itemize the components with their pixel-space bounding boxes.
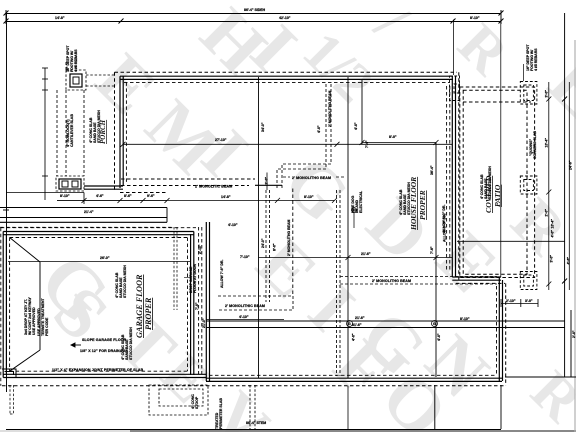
- left dim line: [3, 13, 9, 392]
- svg-text:2'-0": 2'-0": [545, 209, 549, 217]
- svg-text:GARAGE FLOOR: GARAGE FLOOR: [135, 274, 144, 338]
- garage outline: [1, 228, 206, 386]
- house bottom wall: [2, 375, 506, 386]
- house top wall: [115, 72, 458, 82]
- slope arrow: [71, 343, 81, 347]
- dims below patio: [501, 299, 538, 307]
- bottom right vertical x434: [434, 385, 436, 429]
- right overall rotated dims: [569, 160, 573, 170]
- svg-text:ALLOW 7'-6" DR.: ALLOW 7'-6" DR.: [220, 260, 224, 288]
- svg-text:14'-8": 14'-8": [221, 195, 231, 199]
- svg-text:21'-4": 21'-4": [84, 210, 94, 214]
- svg-text:4'-6": 4'-6": [567, 257, 571, 265]
- svg-text:STUCCO DIA MESH: STUCCO DIA MESH: [97, 110, 101, 143]
- svg-text:G: G: [433, 322, 436, 326]
- patio pilaster bottom-right: [520, 272, 537, 290]
- svg-text:STUCCO DIA MESH: STUCCO DIA MESH: [123, 265, 127, 298]
- electrical symbol: [352, 208, 357, 229]
- svg-text:USE APPROVED: USE APPROVED: [32, 307, 36, 335]
- svg-text:1/8" X 12" FOR DRAINAGE: 1/8" X 12" FOR DRAINAGE: [80, 349, 128, 353]
- svg-text:86'-4" SIDEH: 86'-4" SIDEH: [244, 8, 266, 12]
- bottom right stoop box: [500, 385, 502, 429]
- svg-text:FLOOR AT DOOR: FLOOR AT DOOR: [193, 264, 197, 293]
- house left wall turn west at y=186.5: [84, 186, 167, 193]
- svg-text:9'-6": 9'-6": [147, 194, 155, 198]
- svg-text:8'-0": 8'-0": [389, 135, 397, 139]
- driveway line right: [505, 376, 576, 378]
- svg-text:ELECTRICAL: ELECTRICAL: [359, 190, 363, 213]
- patio dim line x569.3: [568, 82, 570, 290]
- svg-text:CANTILEVER SLAB: CANTILEVER SLAB: [70, 114, 74, 147]
- porch column footing F1: [66, 70, 86, 90]
- interior vertical x348: [347, 77, 349, 378]
- covered patio outline: [460, 87, 535, 278]
- garage slab note upper: [115, 265, 127, 298]
- wall down from step: [497, 277, 506, 386]
- beam label rotated: [328, 91, 332, 127]
- svg-text:2'-10": 2'-10": [198, 244, 202, 254]
- dim chain y327: [206, 321, 565, 328]
- svg-text:2' MONOLITHG BEAM: 2' MONOLITHG BEAM: [287, 220, 291, 256]
- half wall segment: [255, 184, 282, 186]
- svg-text:2' MONOLITHG BEAM: 2' MONOLITHG BEAM: [292, 176, 331, 180]
- rotated beam label: [287, 220, 291, 256]
- porch top footing leader text: [66, 45, 78, 72]
- svg-text:2' MONOLITHG BEAM: 2' MONOLITHG BEAM: [372, 279, 411, 283]
- svg-text:36'-4": 36'-4": [430, 165, 434, 175]
- garage left rotated notes: [24, 297, 36, 335]
- svg-text:4'-0": 4'-0": [437, 333, 441, 341]
- rotated dim 2'-0: [265, 177, 269, 185]
- HOUSE FLOOR PROPER label: [409, 177, 427, 231]
- svg-text:4'-10": 4'-10": [239, 315, 249, 319]
- svg-text:3'-0": 3'-0": [550, 255, 554, 263]
- house slab note: [399, 182, 411, 215]
- svg-text:2' MONOLITHG BEAM: 2' MONOLITHG BEAM: [328, 91, 332, 127]
- svg-text:4'-0": 4'-0": [352, 333, 356, 341]
- rotated dim 4'-0 b: [354, 122, 358, 130]
- porch dashed edges: [57, 60, 84, 176]
- svg-text:7'-0": 7'-0": [195, 302, 199, 310]
- right dim line: [562, 13, 567, 377]
- svg-text:STOOP: STOOP: [195, 396, 199, 409]
- porch bottom dim: [6, 193, 170, 205]
- dim 4'-10 under beam: [206, 319, 284, 321]
- svg-text:21'-6": 21'-6": [355, 316, 365, 320]
- rotated dim 7'-4: [365, 140, 369, 148]
- rotated dim 36'-4: [430, 165, 434, 175]
- svg-text:14'-8": 14'-8": [55, 16, 65, 20]
- svg-text:24'-6": 24'-6": [569, 160, 573, 170]
- svg-text:G: G: [348, 322, 351, 326]
- patio right rotated dims: [545, 90, 549, 98]
- svg-text:8'-10": 8'-10": [460, 317, 470, 321]
- svg-text:8'-10": 8'-10": [304, 195, 314, 199]
- svg-text:SLOPE GARAGE FLOOR: SLOPE GARAGE FLOOR: [82, 338, 127, 342]
- svg-text:PER CODE: PER CODE: [45, 317, 49, 336]
- rotated dim 34'-0: [261, 122, 265, 132]
- garage chamfer entry: [10, 238, 40, 372]
- ALLOW 8'-0 DR right: [442, 205, 446, 233]
- leader wire: [75, 52, 77, 70]
- grid circle G1: [347, 321, 353, 327]
- svg-text:31'-6": 31'-6": [352, 323, 362, 327]
- garage/house junction verticals: [174, 227, 177, 310]
- patio pilaster mid-right: [520, 176, 537, 194]
- svg-text:2' MONOLITIC BEAM: 2' MONOLITIC BEAM: [195, 185, 232, 189]
- svg-text:PROPER: PROPER: [144, 297, 153, 330]
- svg-text:26'-0": 26'-0": [100, 256, 110, 260]
- quoins note: [529, 131, 537, 159]
- page bottom edge: [0, 430, 130, 432]
- dim 8'-0 w line: [360, 140, 439, 145]
- svg-text:2'-0": 2'-0": [265, 177, 269, 185]
- porch slab note: [89, 110, 101, 143]
- svg-text:21'-6": 21'-6": [361, 252, 371, 256]
- svg-text:8'-0": 8'-0": [273, 243, 277, 251]
- svg-text:PERIMETER SLAB: PERIMETER SLAB: [219, 398, 223, 429]
- svg-text:10'-4": 10'-4": [551, 219, 555, 229]
- svg-text:24'-0": 24'-0": [261, 238, 265, 248]
- top-right dim extension wires: [454, 20, 501, 278]
- beam vertical x266: [266, 190, 270, 302]
- interior vertical x361 short: [361, 79, 363, 144]
- svg-text:86'-4" STEM: 86'-4" STEM: [246, 421, 266, 425]
- rotated dim 4'-0 low: [437, 333, 441, 341]
- bottom dashed drop x250: [250, 385, 255, 430]
- svg-text:7'-6": 7'-6": [430, 246, 434, 254]
- patio dim line x548.8: [546, 82, 551, 290]
- svg-text:10'-4": 10'-4": [545, 138, 549, 148]
- dim line y200 14'-8 / 8'-10: [167, 198, 337, 203]
- beam horizontal y179-185: [121, 179, 255, 186]
- svg-text:PROPER: PROPER: [418, 190, 427, 220]
- beam horizontal y303 steps: [218, 296, 293, 310]
- rotated dim 7'-6: [430, 246, 434, 254]
- svg-text:4 #5 REBARS: 4 #5 REBARS: [534, 48, 538, 71]
- interior vertical wall x258: [258, 77, 260, 378]
- svg-text:3'-0": 3'-0": [525, 299, 533, 303]
- patio pilaster top-left: [450, 76, 460, 101]
- garage slab note: [121, 327, 133, 360]
- svg-text:4'-6": 4'-6": [96, 194, 104, 198]
- patio pilaster top-right: [520, 82, 537, 105]
- svg-text:34'-0": 34'-0": [261, 122, 265, 132]
- ALLOW 7'-6 DR rotated: [220, 260, 224, 288]
- house right wall: [447, 72, 459, 280]
- house left wall: [115, 72, 127, 192]
- porch brick note: [66, 114, 74, 147]
- rotated dims at garage right: [198, 244, 202, 254]
- patio slab note: [480, 166, 492, 199]
- svg-text:8'-6": 8'-6": [124, 194, 132, 198]
- svg-text:STUCCO DIA MESH: STUCCO DIA MESH: [488, 166, 492, 199]
- svg-text:8'-10": 8'-10": [470, 16, 480, 20]
- porch left dim line: [42, 68, 48, 200]
- extension below wall x348: [347, 386, 349, 429]
- svg-text:4'-10": 4'-10": [228, 223, 238, 227]
- rotated dim 2'-0 right: [572, 330, 576, 338]
- patio horizontal line: [457, 240, 565, 242]
- svg-text:3'-0": 3'-0": [545, 90, 549, 98]
- bottom stoop center: [149, 385, 208, 415]
- garage bottom-left corner notch: [2, 369, 16, 377]
- svg-text:PATIO: PATIO: [493, 184, 502, 207]
- svg-text:2'-10": 2'-10": [506, 299, 516, 303]
- rotated dims along beam: [261, 238, 265, 248]
- svg-text:42'-10": 42'-10": [279, 16, 291, 20]
- PORCH label: [99, 119, 107, 144]
- GARAGE FLOOR PROPER label: [135, 274, 153, 338]
- bottom dashed drop x10: [10, 385, 14, 414]
- rotated dim 4'-0 low b: [352, 333, 356, 341]
- bottom dim line 86'-4" STEM: [6, 429, 501, 431]
- svg-text:CORNERS SLAB: CORNERS SLAB: [533, 131, 537, 159]
- ALLOW 5'-0 DR rotated: [443, 214, 447, 242]
- interior horizontal y257: [259, 257, 453, 259]
- drop garage floor note: [189, 264, 197, 293]
- patio arcade dashed line: [463, 101, 531, 103]
- svg-text:1/2" X 4" EXPANSION JOINT PERI: 1/2" X 4" EXPANSION JOINT PERIMETER OF S…: [52, 368, 144, 372]
- beam vertical top x326-331: [277, 84, 331, 190]
- svg-text:7'-10": 7'-10": [240, 255, 250, 259]
- patio footing note top right: [526, 44, 538, 71]
- svg-text:2' MONOLITHIC BEAM: 2' MONOLITHIC BEAM: [225, 304, 265, 308]
- svg-text:2'-0": 2'-0": [572, 330, 576, 338]
- walkway band lines: [0, 208, 174, 228]
- house west wall below garage: [199, 222, 210, 381]
- interior horizontal y143: [123, 143, 452, 145]
- svg-text:4'-0": 4'-0": [317, 125, 321, 133]
- footing F1 dashed ties to wall: [86, 75, 116, 86]
- svg-text:27'-10": 27'-10": [215, 138, 227, 142]
- dim ext x267: [266, 173, 268, 191]
- house step right wall to patio: [452, 277, 505, 283]
- beam dashed vertical x292.8: [292, 189, 294, 297]
- termite note rotated: [215, 398, 223, 429]
- grid circle G2: [432, 321, 438, 327]
- svg-text:STUCCO DIA MESH: STUCCO DIA MESH: [129, 327, 133, 360]
- porch column footing F2: [56, 176, 84, 191]
- rotated dim 4'-0: [317, 125, 321, 133]
- garage 26'-0 dim: [8, 261, 191, 263]
- svg-text:7'-4": 7'-4": [365, 140, 369, 148]
- svg-text:STUCCO DIA MESH: STUCCO DIA MESH: [407, 182, 411, 215]
- COVERED PATIO label: [484, 175, 502, 213]
- svg-text:8'-10": 8'-10": [60, 194, 70, 198]
- beam horizontal y280 right: [340, 277, 497, 285]
- hire dog island electrical note: [351, 190, 363, 213]
- interior vertical x440: [435, 143, 437, 378]
- svg-text:4'-0": 4'-0": [551, 230, 555, 238]
- top dim line overall: [4, 10, 504, 24]
- svg-text:21'-0": 21'-0": [202, 318, 206, 328]
- right page edge: [574, 40, 576, 432]
- svg-text:4'-0": 4'-0": [354, 122, 358, 130]
- svg-text:ALLOW 5'-0" DR.: ALLOW 5'-0" DR.: [443, 214, 447, 242]
- beam vertical x337 lower: [337, 190, 341, 376]
- stoop label: [191, 394, 199, 409]
